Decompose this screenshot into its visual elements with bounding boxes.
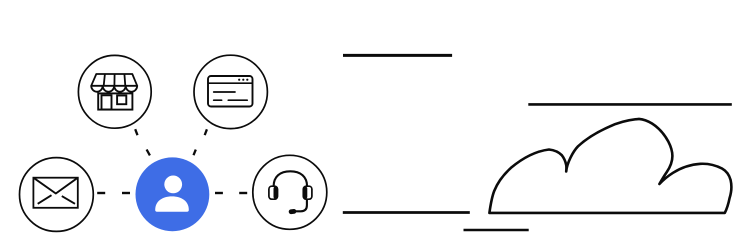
headset circle xyxy=(253,155,327,229)
dashed link user-headset xyxy=(215,192,247,194)
user head xyxy=(164,176,182,194)
browser icon window xyxy=(208,76,253,107)
line below cloud xyxy=(464,229,529,232)
shop icon window xyxy=(117,96,126,105)
browser dots xyxy=(238,79,248,81)
shop icon door xyxy=(102,95,112,109)
envelope lower-left diagonal xyxy=(38,195,52,204)
headset left ear cup xyxy=(269,186,278,199)
cloud xyxy=(489,119,731,213)
dashed link shop-user xyxy=(135,129,150,155)
envelope flap xyxy=(33,178,77,194)
headset mic boom xyxy=(296,199,307,211)
headset right ear cup xyxy=(303,186,312,199)
shop icon body xyxy=(98,93,132,109)
headset headband xyxy=(274,171,308,186)
line lower left xyxy=(343,211,470,214)
shop icon awning xyxy=(91,74,137,92)
line upper right xyxy=(528,103,732,106)
dashed link browser-user xyxy=(194,129,207,155)
envelope body xyxy=(33,178,77,208)
dashed link envelope-user xyxy=(97,192,130,194)
browser content lines xyxy=(214,92,248,100)
browser title bar line xyxy=(208,82,253,84)
browser circle xyxy=(194,55,267,128)
line top xyxy=(343,54,452,57)
envelope circle xyxy=(20,158,94,232)
user body xyxy=(155,196,189,211)
shop circle xyxy=(78,55,151,128)
user circle (blue) xyxy=(136,157,210,231)
envelope lower-right diagonal xyxy=(62,196,75,204)
headset mic xyxy=(288,209,296,215)
